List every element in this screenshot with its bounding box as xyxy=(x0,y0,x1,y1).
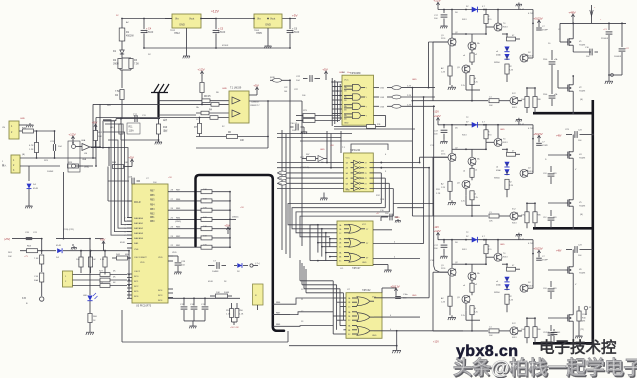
terminal W+ stage3 xyxy=(584,306,588,310)
svg-text:10K: 10K xyxy=(203,189,207,191)
capacitor C14 xyxy=(295,124,297,131)
resistor Rh3 xyxy=(489,329,499,333)
svg-text:74HC08D: 74HC08D xyxy=(350,72,361,75)
resistor R8 xyxy=(200,83,204,93)
wire caps c12 join xyxy=(551,70,553,88)
svg-text:(C20) (C21): (C20) (C21) xyxy=(63,229,74,231)
svg-text:470PF: 470PF xyxy=(542,145,549,147)
svg-text:2.2K: 2.2K xyxy=(407,104,412,106)
svg-text:750(P): 750(P) xyxy=(579,158,586,160)
svg-text:2.2k: 2.2k xyxy=(461,85,465,87)
wire stage3 links xyxy=(465,310,467,320)
resistor R17 xyxy=(168,228,201,230)
svg-text:7.5K: 7.5K xyxy=(115,90,120,93)
svg-text:GND: GND xyxy=(20,118,25,120)
resistor R3 xyxy=(129,59,133,69)
svg-text:470UF: 470UF xyxy=(292,31,300,34)
power +5V r12 xyxy=(95,125,97,129)
label GND opto xyxy=(76,165,84,167)
capacitor C16 xyxy=(193,298,195,305)
svg-text:电子技术控: 电子技术控 xyxy=(539,338,617,357)
wire u6 outputs xyxy=(373,229,392,231)
transistor Q21 xyxy=(448,38,456,46)
resistor R16 xyxy=(168,218,201,220)
logic chip U4 74HC08D xyxy=(342,75,374,125)
wire d2 stub1 xyxy=(506,48,508,50)
svg-text:2200: 2200 xyxy=(543,59,547,61)
transistor Q12 xyxy=(494,138,502,146)
connector J1 xyxy=(9,121,19,139)
ground sampling xyxy=(158,140,160,142)
svg-text:R07: R07 xyxy=(306,154,309,156)
wire stage2 links xyxy=(465,195,467,205)
svg-text:+12V: +12V xyxy=(433,341,439,344)
svg-text:C10n: C10n xyxy=(403,294,408,296)
transistor Q32 xyxy=(468,157,476,165)
mosfet V6 xyxy=(566,269,568,271)
svg-text:VDD: VDD xyxy=(172,252,177,254)
ground stage2 q2 xyxy=(451,200,453,202)
svg-text:GND: GND xyxy=(395,217,400,219)
transistor Q41 xyxy=(462,65,470,73)
resistor Rh2 xyxy=(489,214,499,218)
power +12V comparator xyxy=(201,72,203,76)
resistor R02 xyxy=(88,257,92,267)
diode D13 xyxy=(472,237,478,243)
svg-text:4.7UF: 4.7UF xyxy=(528,243,534,245)
resistor R27 xyxy=(100,273,110,277)
svg-text:Vout: Vout xyxy=(270,17,275,21)
svg-text:+5(2)V: +5(2)V xyxy=(533,132,543,136)
wire mosfet join s4 xyxy=(572,161,574,198)
opto U6A xyxy=(82,144,90,151)
capacitor C40 xyxy=(553,329,555,331)
svg-text:+12V: +12V xyxy=(68,133,76,137)
svg-text:RB0: RB0 xyxy=(150,221,155,223)
capacitor C9 mclr xyxy=(131,178,133,185)
svg-text:R10: R10 xyxy=(163,127,168,129)
electrode hatch symbol xyxy=(151,84,169,93)
svg-text:S8550: S8550 xyxy=(494,62,501,64)
capacitor C11 xyxy=(134,115,136,122)
svg-text:10K: 10K xyxy=(203,245,207,247)
svg-text:+12V: +12V xyxy=(433,0,441,3)
wire opto out xyxy=(99,104,101,147)
svg-text:(T2): (T2) xyxy=(580,329,584,331)
op-amp U2 LM339 xyxy=(229,91,249,123)
transistor Q43 xyxy=(462,295,470,303)
svg-text:2200: 2200 xyxy=(543,94,547,96)
power +48V stage1 xyxy=(572,15,574,19)
svg-text:Vin: Vin xyxy=(175,17,179,21)
svg-text:RC1: RC1 xyxy=(134,281,139,283)
wire u1 top loop xyxy=(351,144,388,153)
diode D21 xyxy=(504,47,509,52)
resistor R100 xyxy=(577,311,581,321)
wire stage2 top rail xyxy=(438,124,533,126)
svg-text:RA2/AN2: RA2/AN2 xyxy=(134,227,144,230)
svg-text:RB5: RB5 xyxy=(150,200,155,202)
diode D6 4148 xyxy=(237,263,242,268)
bus wire vertical v2 xyxy=(268,100,302,102)
mosfet V4 xyxy=(566,154,568,156)
svg-text:470PF: 470PF xyxy=(542,260,549,262)
svg-text:2.2k: 2.2k xyxy=(474,312,478,314)
ground stage1 q2 xyxy=(451,85,453,87)
resistor Rj3 xyxy=(533,327,537,338)
resistor Rc2 xyxy=(448,181,452,191)
svg-text:RC4: RC4 xyxy=(158,300,163,302)
logic chip U6 74HC27 xyxy=(337,221,373,266)
net ovals u1 inputs xyxy=(278,171,286,175)
resistor network RN1 xyxy=(253,284,264,305)
svg-text:2.2K: 2.2K xyxy=(509,185,514,187)
svg-text:4.7K: 4.7K xyxy=(100,259,105,261)
capacitor C12 xyxy=(443,125,445,129)
label box R11 xyxy=(127,123,140,134)
svg-text:2.2K: 2.2K xyxy=(407,86,412,88)
wire u6 inputs xyxy=(318,224,337,226)
wire inter links xyxy=(423,228,425,230)
svg-text:U6A: U6A xyxy=(82,158,87,161)
junction dots right column xyxy=(572,23,574,25)
svg-text:头条@柏栈一起学电子: 头条@柏栈一起学电子 xyxy=(453,356,637,378)
connector J2 xyxy=(11,155,20,173)
junction dots psu xyxy=(121,18,123,20)
ground mcu caps xyxy=(184,320,205,322)
wire opto output down xyxy=(108,148,110,166)
wire stage1 mid xyxy=(466,33,486,35)
wire stage2 left links xyxy=(429,127,431,129)
net stub RB6 xyxy=(273,303,290,305)
wire mcu bottom rail xyxy=(168,297,240,299)
capacitor C15 xyxy=(183,298,185,305)
svg-text:GND: GND xyxy=(344,123,349,125)
svg-text:1R3: 1R3 xyxy=(553,173,556,175)
svg-text:+5V: +5V xyxy=(322,68,329,72)
svg-text:750(P): 750(P) xyxy=(579,273,586,275)
resistor Ri3 xyxy=(525,327,529,338)
mosfet V2 xyxy=(566,87,568,89)
svg-text:R6 R5: R6 R5 xyxy=(204,96,211,98)
svg-text:2.2K: 2.2K xyxy=(509,70,514,72)
svg-text:470UF: 470UF xyxy=(146,31,154,34)
wire u5 inputs xyxy=(333,297,346,299)
svg-text:+5V: +5V xyxy=(253,84,260,88)
resistor R22 xyxy=(68,164,79,168)
svg-text:74HC240: 74HC240 xyxy=(350,149,361,152)
power +12V stage3 xyxy=(437,233,439,237)
svg-text:1 B2: 1 B2 xyxy=(380,88,385,90)
svg-text:+5V: +5V xyxy=(330,145,334,147)
resistor R24 xyxy=(100,278,110,282)
wire d2 stub2 xyxy=(506,163,508,165)
wire left column xyxy=(121,70,123,88)
wire stage3 input row xyxy=(420,330,463,332)
svg-text:OSC2: OSC2 xyxy=(134,271,141,273)
resistor R6 bottom xyxy=(196,136,226,138)
wire stage1 input row xyxy=(412,100,433,102)
connector JP1 housing xyxy=(68,141,80,172)
svg-text:750(P): 750(P) xyxy=(579,206,586,208)
capacitor C10 u6 xyxy=(380,217,382,221)
svg-text:470PF: 470PF xyxy=(542,30,549,32)
transistor Q23 xyxy=(448,268,456,276)
svg-text:150R: 150R xyxy=(582,314,587,316)
ground below U8 xyxy=(186,28,188,54)
wire bl rail2 xyxy=(20,250,56,252)
resistor Rb1 xyxy=(484,15,488,24)
bus thick output rail row2 xyxy=(533,227,593,230)
svg-text:4148: 4148 xyxy=(33,188,39,190)
svg-text:RA1/AN1: RA1/AN1 xyxy=(134,222,144,225)
svg-text:VCC: VCC xyxy=(362,224,367,226)
bus vertical net3 xyxy=(423,97,425,244)
resistor R44 xyxy=(117,256,128,260)
svg-text:GND: GND xyxy=(84,167,89,169)
svg-text:GND: GND xyxy=(412,79,417,81)
svg-text:1.2K: 1.2K xyxy=(441,72,446,74)
transistor Q52 xyxy=(520,169,528,177)
diode D5 4148 xyxy=(57,248,62,253)
resistor R04 xyxy=(27,249,38,253)
junction dots input xyxy=(36,130,38,132)
fuse F1 xyxy=(119,28,125,41)
svg-text:RB1: RB1 xyxy=(150,217,155,219)
svg-text:GND: GND xyxy=(222,88,227,90)
svg-text:2200UF: 2200UF xyxy=(601,38,609,40)
resistor Rd2 xyxy=(470,168,474,177)
wire nest verticals u6 xyxy=(317,225,319,253)
wire mcu bottom loop xyxy=(122,341,288,343)
svg-text:104NF: 104NF xyxy=(212,271,219,273)
svg-text:2.2K: 2.2K xyxy=(407,95,412,97)
svg-text:K.B: K.B xyxy=(22,297,26,300)
transistor Q31 xyxy=(468,42,476,50)
ground stage3 top xyxy=(518,236,520,240)
svg-text:2.2k: 2.2k xyxy=(474,197,478,199)
svg-text:750(P): 750(P) xyxy=(579,91,586,93)
svg-text:C8865/T.7: C8865/T.7 xyxy=(250,105,260,107)
resistor Re1 xyxy=(470,76,474,85)
svg-text:GND: GND xyxy=(500,244,505,246)
svg-text:+12V: +12V xyxy=(197,68,205,72)
ground tr caps xyxy=(608,75,610,79)
wire bottom supply rail xyxy=(144,47,290,49)
svg-text:+5V: +5V xyxy=(92,121,99,125)
svg-text:1R3: 1R3 xyxy=(553,288,556,290)
svg-text:(E): (E) xyxy=(580,99,583,101)
resistor R05 xyxy=(40,255,44,264)
svg-text:4502W: 4502W xyxy=(126,35,134,38)
resistor R18 xyxy=(168,237,201,239)
svg-text:10K: 10K xyxy=(216,292,220,294)
svg-text:(B): (B) xyxy=(22,154,25,156)
diode D23 xyxy=(504,277,509,282)
svg-text:+5V: +5V xyxy=(128,156,135,160)
svg-text:RC6: RC6 xyxy=(134,296,139,298)
resistor R03 xyxy=(79,257,83,267)
svg-text:GND: GND xyxy=(372,335,377,337)
transistor Q61 xyxy=(510,97,518,105)
mcu pin stubs left xyxy=(127,200,132,202)
resistor Rd1 xyxy=(470,53,474,62)
svg-text:GND: GND xyxy=(320,149,325,151)
resistor Rf1 xyxy=(507,37,516,41)
svg-text:10K: 10K xyxy=(203,217,207,219)
transistor Q33 xyxy=(468,272,476,280)
transistor Q51 xyxy=(520,54,528,62)
resistor R07 led xyxy=(89,301,91,313)
svg-text:RC5: RC5 xyxy=(134,291,139,293)
svg-text:470UF: 470UF xyxy=(222,45,229,47)
resistor R52 xyxy=(230,309,234,318)
svg-text:T.1 LM339: T.1 LM339 xyxy=(230,87,242,90)
logic chip U5 74HC32 xyxy=(346,293,382,339)
capacitor C22 xyxy=(309,75,311,82)
bus left of u4 xyxy=(331,78,333,126)
svg-text:RB4: RB4 xyxy=(150,204,155,206)
wire mosfet join s6 xyxy=(572,276,574,313)
ground stage3 q2 xyxy=(451,315,453,317)
svg-text:+5(2)V: +5(2)V xyxy=(533,247,543,251)
resistor Rb3 xyxy=(484,245,488,254)
wire stage1 top rail xyxy=(438,9,533,11)
wire stage3 mid xyxy=(466,263,486,265)
resistor R7 xyxy=(197,124,201,134)
svg-text:1.2K: 1.2K xyxy=(436,193,441,195)
capacitor C20 xyxy=(26,237,32,239)
resistor R19 xyxy=(168,246,201,248)
svg-text:7.5K: 7.5K xyxy=(134,63,139,66)
capacitor C13L xyxy=(52,144,54,151)
ground stage1 cap xyxy=(443,24,445,26)
svg-text:RB2: RB2 xyxy=(279,173,283,175)
svg-text:1.2K: 1.2K xyxy=(441,302,446,304)
svg-text:+5V: +5V xyxy=(224,224,231,228)
power +24V stage2 xyxy=(538,136,540,140)
svg-text:1R3: 1R3 xyxy=(553,217,556,219)
wire stage1 left vertical xyxy=(432,42,434,101)
svg-text:(+5V): (+5V) xyxy=(4,238,10,241)
transistor Q62 xyxy=(510,212,518,220)
resistor Rc1 xyxy=(448,66,452,76)
capacitor C6 xyxy=(289,18,291,20)
bus wire vertical v3 xyxy=(281,130,283,250)
capacitor C12B xyxy=(551,88,553,94)
svg-text:C24: C24 xyxy=(543,173,546,175)
svg-text:+5V: +5V xyxy=(100,238,107,242)
wire bl vertical xyxy=(41,239,43,251)
wire tr caps bottom xyxy=(609,74,622,76)
svg-text:+12V: +12V xyxy=(211,10,220,14)
wire left col to mcu xyxy=(128,251,130,298)
svg-text:106: 106 xyxy=(284,91,287,93)
ground below U9 xyxy=(267,28,269,44)
power +24V stage3 xyxy=(538,251,540,255)
svg-text:C8865/T: C8865/T xyxy=(251,102,260,104)
svg-text:+5V 1.2K: +5V 1.2K xyxy=(230,327,239,329)
svg-text:C12: C12 xyxy=(543,217,546,219)
capacitor C4 xyxy=(143,19,145,30)
svg-text:1.1K: 1.1K xyxy=(226,314,231,316)
capacitor C12 s6 xyxy=(550,325,552,331)
svg-text:GND: GND xyxy=(265,23,271,27)
resistor Rd3 xyxy=(470,283,474,292)
svg-text:RC2: RC2 xyxy=(134,286,139,288)
wire u4 input stubs xyxy=(332,81,342,83)
svg-text:1 B4: 1 B4 xyxy=(380,106,385,108)
svg-text:1 B3: 1 B3 xyxy=(380,97,385,99)
ground d4 xyxy=(28,189,30,204)
svg-text:103: 103 xyxy=(557,332,560,334)
svg-text:GND: GND xyxy=(346,189,351,191)
svg-text:10K: 10K xyxy=(76,259,80,261)
bus wire vertical v4 xyxy=(285,134,287,254)
wire bl to rail xyxy=(56,238,90,240)
wire u5 input verticals xyxy=(332,281,334,334)
svg-text:VCC: VCC xyxy=(344,80,349,82)
power +5V mcu right xyxy=(227,228,229,232)
capacitor C23 s4 xyxy=(566,134,572,136)
wire u6 left bus xyxy=(309,225,311,261)
wire comparator output xyxy=(249,100,268,102)
svg-text:OSC1 RB6/T: OSC1 RB6/T xyxy=(134,257,147,259)
capacitor C10 mid xyxy=(572,48,574,53)
wire j2 rows xyxy=(20,157,93,159)
terminal arrow out1 xyxy=(591,5,593,23)
capacitor C13 xyxy=(608,23,610,30)
wire u4 bottom rail xyxy=(334,128,415,130)
resistor Rg1 xyxy=(505,64,509,74)
ground u5 xyxy=(396,348,398,350)
mosfet V7 xyxy=(566,317,568,319)
ground stage2 cap xyxy=(443,139,445,141)
resistor R13 xyxy=(168,191,201,193)
svg-text:2.2k: 2.2k xyxy=(461,315,465,317)
resistor Rf2 xyxy=(507,152,516,156)
power +12V opto xyxy=(72,137,74,141)
regulator U9 7805 xyxy=(254,14,282,28)
wire u4 out4 xyxy=(374,115,386,117)
net stub RB5 xyxy=(273,325,292,327)
resistor R15 xyxy=(168,209,201,211)
svg-text:C40: C40 xyxy=(546,332,549,334)
microcontroller U3 PIC16F73 xyxy=(132,184,168,303)
wire stage2 q6 out xyxy=(518,215,521,217)
wire sampling tie xyxy=(103,120,116,122)
svg-text:(B1): (B1) xyxy=(110,127,114,129)
svg-text:100NF: 100NF xyxy=(47,171,54,173)
wire u4 to u1 rows xyxy=(277,133,352,135)
bus wire vertical v1 xyxy=(289,80,291,258)
resistor Ri1 xyxy=(525,97,529,108)
resistor Rj2 xyxy=(533,212,537,223)
svg-text:VCC: VCC xyxy=(346,158,351,160)
wire stage3 top rail xyxy=(438,239,533,241)
resistor R51 xyxy=(216,294,228,298)
capacitor C24 s4 xyxy=(550,166,552,172)
resistor R14 xyxy=(168,200,201,202)
wire comparator feedback xyxy=(196,147,268,149)
resistor R11 xyxy=(119,124,123,134)
wire ra nest xyxy=(109,148,132,218)
svg-text:4.7K: 4.7K xyxy=(29,145,34,147)
svg-text:C22: C22 xyxy=(284,87,287,89)
wire stage2 bottom row xyxy=(433,215,488,217)
svg-text:4148: 4148 xyxy=(56,245,62,247)
wire to comparator A xyxy=(159,100,197,102)
